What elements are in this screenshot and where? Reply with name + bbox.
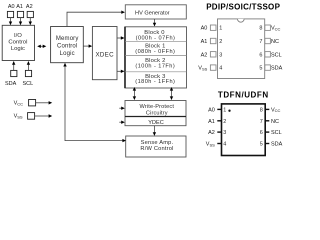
svg-text:VSS: VSS (14, 114, 23, 120)
svg-text:XDEC: XDEC (95, 52, 114, 59)
svg-text:NC: NC (271, 119, 279, 125)
svg-text:(080h - 0FFh): (080h - 0FFh) (135, 49, 175, 55)
svg-text:R/W Control: R/W Control (140, 146, 173, 152)
svg-text:HV Generator: HV Generator (135, 10, 170, 16)
svg-text:A1: A1 (201, 39, 208, 45)
svg-text:A0: A0 (208, 107, 215, 113)
svg-text:Write-Protect: Write-Protect (140, 104, 175, 110)
svg-text:5: 5 (259, 66, 262, 72)
svg-text:VSS: VSS (206, 142, 215, 148)
svg-text:A1: A1 (208, 119, 215, 125)
svg-text:Logic: Logic (11, 46, 25, 52)
svg-text:4: 4 (219, 66, 222, 72)
svg-text:SCL: SCL (271, 52, 282, 58)
svg-text:SDA: SDA (271, 66, 283, 72)
svg-text:TDFN/UDFN: TDFN/UDFN (218, 90, 269, 99)
svg-text:VSS: VSS (198, 66, 207, 72)
svg-text:3: 3 (219, 52, 222, 58)
svg-text:7: 7 (260, 119, 263, 125)
svg-text:2: 2 (219, 39, 222, 45)
svg-text:Sense Amp.: Sense Amp. (141, 140, 174, 146)
svg-text:Control: Control (8, 39, 27, 45)
svg-text:Control: Control (57, 43, 77, 49)
svg-text:SDA: SDA (5, 81, 17, 87)
svg-text:SDA: SDA (271, 142, 283, 148)
svg-text:8: 8 (260, 107, 263, 113)
svg-text:3: 3 (223, 130, 226, 136)
svg-text:VCC: VCC (271, 26, 281, 32)
svg-text:1: 1 (219, 26, 222, 32)
svg-text:NC: NC (271, 39, 279, 45)
svg-text:Memory: Memory (56, 36, 79, 42)
svg-text:(000h - 07Fh): (000h - 07Fh) (136, 35, 176, 41)
svg-text:7: 7 (259, 39, 262, 45)
svg-text:VCC: VCC (14, 101, 24, 107)
svg-text:I/O: I/O (14, 33, 22, 39)
svg-text:(100h - 17Fh): (100h - 17Fh) (135, 63, 175, 69)
svg-text:(180h - 1FFh): (180h - 1FFh) (135, 79, 175, 85)
svg-text:A0: A0 (8, 4, 15, 10)
svg-text:A2: A2 (201, 52, 208, 58)
svg-text:Circuitry: Circuitry (146, 111, 168, 117)
svg-text:SCL: SCL (271, 130, 282, 136)
svg-text:A2: A2 (26, 4, 33, 10)
svg-text:6: 6 (260, 130, 263, 136)
svg-text:YDEC: YDEC (148, 120, 164, 126)
svg-text:PDIP/SOIC/TSSOP: PDIP/SOIC/TSSOP (206, 3, 280, 12)
svg-text:4: 4 (223, 142, 226, 148)
svg-text:5: 5 (260, 142, 263, 148)
svg-text:Logic: Logic (60, 51, 75, 57)
svg-text:6: 6 (259, 52, 262, 58)
svg-text:A0: A0 (201, 26, 208, 32)
svg-text:A2: A2 (208, 130, 215, 136)
svg-text:1: 1 (223, 107, 226, 113)
svg-text:2: 2 (223, 119, 226, 125)
svg-text:8: 8 (259, 26, 262, 32)
svg-text:VCC: VCC (271, 107, 281, 113)
svg-text:A1: A1 (16, 4, 23, 10)
svg-text:SCL: SCL (22, 81, 33, 87)
